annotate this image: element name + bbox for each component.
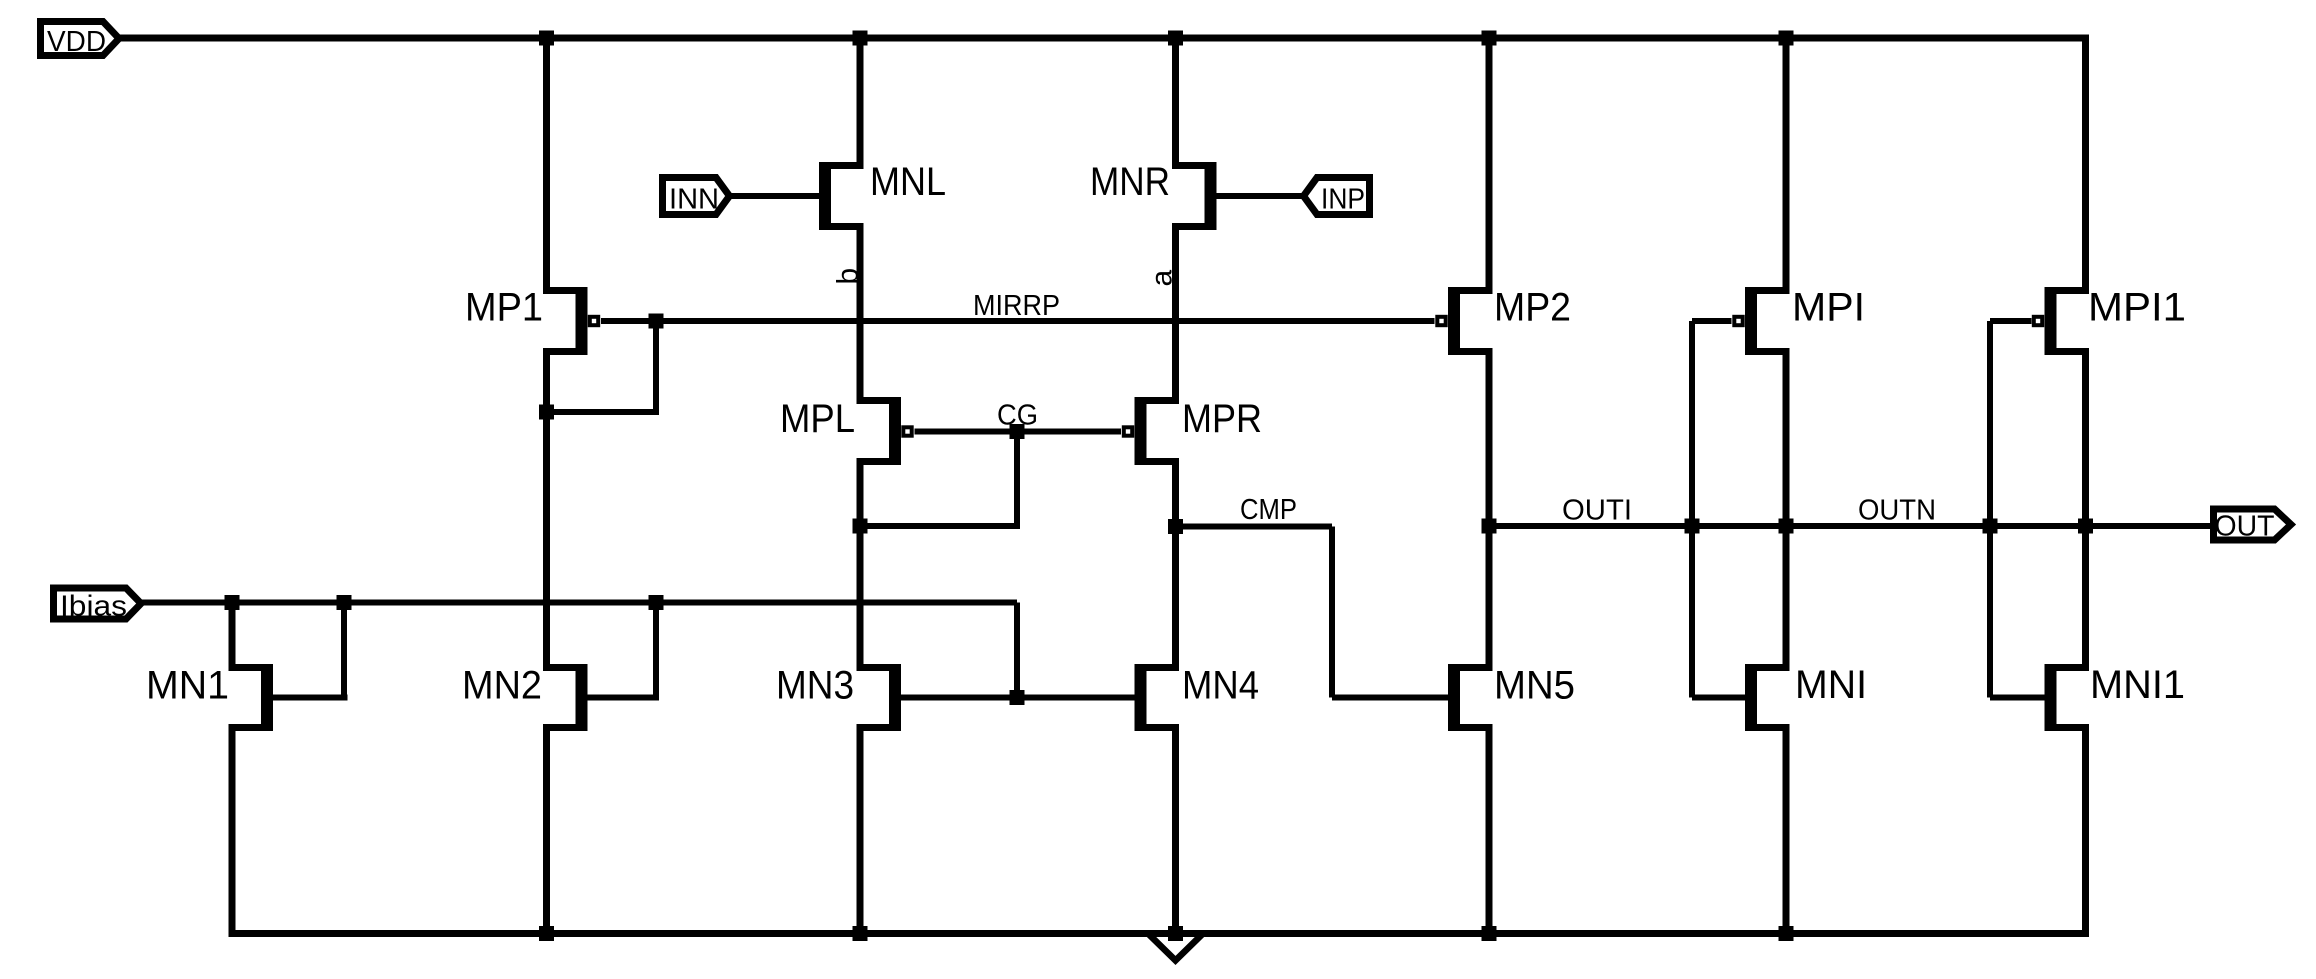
- svg-text:b: b: [832, 268, 865, 285]
- svg-text:OUTI: OUTI: [1562, 495, 1632, 527]
- transistor MP1 (PMOS): [543, 287, 598, 355]
- junction CG net: [1010, 424, 1025, 439]
- junction OUTN MPI1 MNI1 gate riser: [1983, 519, 1998, 534]
- junction Ibias MN1 drain: [225, 595, 240, 610]
- wire MN1 gate riser: [341, 603, 347, 698]
- wire MPI MNI gate riser: [1689, 321, 1695, 698]
- junction VDD rail x=546.5: [539, 31, 554, 46]
- junction VDD rail x=1175.5: [1168, 31, 1183, 46]
- wire MP1 gate-drain tie horizontal: [543, 409, 659, 415]
- wire MN1 gate lead: [273, 695, 348, 701]
- svg-text:MNR: MNR: [1090, 160, 1170, 204]
- junction ground rail x=546.5: [539, 926, 554, 941]
- wire INN lead to MNL gate: [729, 193, 819, 199]
- svg-text:MNI1: MNI1: [2090, 663, 2185, 707]
- wire VDD rail: [119, 35, 2089, 42]
- transistor MN3 (NMOS): [857, 664, 902, 731]
- wire MP1 drain to MN2 drain: [543, 352, 550, 668]
- wire CG net MPL gate to MPR gate: [915, 429, 1122, 435]
- junction ground rail x=1489: [1482, 926, 1497, 941]
- wire OUTI-OUTN-OUT row: [1489, 523, 2216, 529]
- wire VDD to MPI1 source: [2082, 35, 2089, 291]
- transistor MPI (PMOS): [1734, 287, 1789, 355]
- wire CMP net to MN5 gate: [1332, 695, 1448, 701]
- transistor MPI1 (PMOS): [2034, 287, 2089, 355]
- wire MN1 source to ground rail: [229, 728, 236, 938]
- svg-text:MPR: MPR: [1182, 397, 1262, 441]
- wire VDD to MNR drain: [1172, 35, 1179, 166]
- wire MPI drain to MNI drain: [1783, 352, 1790, 668]
- svg-text:MN3: MN3: [776, 664, 854, 708]
- wire MN2 gate riser: [653, 603, 659, 698]
- svg-text:OUT: OUT: [2215, 511, 2275, 543]
- transistor MPL (PMOS): [857, 397, 912, 465]
- junction Ibias MN1 gate: [337, 595, 352, 610]
- transistor MN2 (NMOS): [543, 664, 588, 731]
- svg-text:MP1: MP1: [465, 286, 543, 330]
- svg-text:MN1: MN1: [146, 664, 229, 708]
- svg-text:a: a: [1146, 270, 1179, 287]
- wire node a MNR source to MPR source: [1172, 227, 1179, 401]
- transistor MPR (PMOS): [1124, 397, 1179, 465]
- wire Ibias net: [141, 600, 1017, 606]
- wire node b MNL source to MPL source: [857, 227, 864, 401]
- port VDD: [41, 22, 120, 56]
- transistor MP2 (PMOS): [1437, 287, 1492, 355]
- wire VDD to MP2 source: [1486, 35, 1493, 291]
- wire MPI1 drain to MNI1 drain: [2082, 352, 2089, 668]
- junction CMP node MPR MN4 drains: [1168, 519, 1183, 534]
- wire MNI source to ground rail: [1783, 728, 1790, 938]
- wire VDD to MP1 source: [543, 35, 550, 291]
- wire MNI1 gate lead: [1990, 695, 2045, 701]
- wire MN2 source to ground rail: [543, 728, 550, 938]
- svg-text:MN5: MN5: [1494, 664, 1575, 708]
- wire Ibias net down to MN3 MN4 gates: [1014, 603, 1020, 698]
- wire MPI gate lead: [1692, 318, 1732, 324]
- junction OUT node MPI1 MNI1 drains: [2078, 519, 2093, 534]
- svg-text:INN: INN: [669, 184, 719, 216]
- wire MPI1 MNI1 gate riser: [1987, 321, 1993, 698]
- svg-text:VDD: VDD: [47, 26, 106, 58]
- junction ground rail x=1175.5: [1168, 926, 1183, 941]
- junction ground rail x=1786: [1779, 926, 1794, 941]
- wire CMP net vertical: [1329, 527, 1335, 698]
- port OUT: [2214, 509, 2292, 540]
- svg-text:MPI: MPI: [1792, 286, 1865, 330]
- wire Ibias to MN1 drain: [229, 600, 236, 668]
- wire CMP net horizontal from MN4 drain: [1176, 524, 1333, 530]
- wire MNI1 source to ground rail: [2082, 728, 2089, 938]
- junction MP1 drain tie: [539, 405, 554, 420]
- wire MP1 gate-drain tie vertical: [653, 321, 659, 412]
- wire MN3 source to ground rail: [857, 728, 864, 938]
- wire MNI gate lead: [1692, 695, 1745, 701]
- svg-text:OUTN: OUTN: [1858, 495, 1936, 527]
- junction VDD rail x=1489: [1482, 31, 1497, 46]
- svg-text:MIRRP: MIRRP: [973, 290, 1060, 322]
- svg-text:MN4: MN4: [1182, 664, 1259, 708]
- junction VDD rail x=1786: [1779, 31, 1794, 46]
- junction VDD rail x=860: [853, 31, 868, 46]
- ground: [1148, 934, 1203, 961]
- port Ibias: [54, 588, 142, 619]
- wire MPL drain to MN3 drain: [857, 462, 864, 668]
- wire ground rail: [229, 930, 2090, 937]
- junction ground rail x=860: [853, 926, 868, 941]
- junction Ibias MN2 gate: [649, 595, 664, 610]
- transistor MNR (NMOS): [1172, 162, 1217, 230]
- svg-text:MNL: MNL: [870, 160, 946, 204]
- wire MP2 drain to MN5 drain: [1486, 352, 1493, 668]
- wire MPR drain to MN4 drain: [1172, 462, 1179, 668]
- port INN: [663, 178, 730, 215]
- transistor MN1 (NMOS): [229, 664, 274, 731]
- svg-text:MNI: MNI: [1795, 663, 1867, 707]
- svg-text:MN2: MN2: [462, 664, 542, 708]
- wire CG junction down to MPL drain node: [1014, 432, 1020, 527]
- svg-text:MPL: MPL: [780, 397, 855, 441]
- svg-text:Ibias: Ibias: [60, 591, 127, 623]
- svg-text:MP2: MP2: [1494, 286, 1571, 330]
- junction OUTI node MP2 MN5 drains: [1482, 519, 1497, 534]
- svg-text:INP: INP: [1321, 184, 1365, 216]
- junction Ibias MN3 MN4 gates: [1010, 690, 1025, 705]
- wire MN5 source to ground rail: [1486, 728, 1493, 938]
- wire MPL drain node horizontal: [857, 523, 1021, 529]
- wire MN3 MN4 gate net: [901, 695, 1135, 701]
- wire MIRRP net MP1 gate to MP2 gate: [601, 318, 1435, 324]
- wire MN2 gate lead: [588, 695, 660, 701]
- svg-text:MPI1: MPI1: [2088, 286, 2186, 330]
- wire VDD to MPI source: [1783, 35, 1790, 291]
- junction MP1 gate tie: [649, 314, 664, 329]
- wire MPI1 gate lead: [1990, 318, 2032, 324]
- wire MN4 source to ground rail: [1172, 728, 1179, 938]
- wire VDD to MNL drain: [857, 35, 864, 166]
- junction MPL drain node: [853, 519, 868, 534]
- svg-text:CG: CG: [997, 400, 1038, 432]
- transistor MNI (NMOS): [1745, 664, 1790, 731]
- transistor MNL (NMOS): [819, 162, 864, 230]
- junction OUTI MPI MNI gate riser: [1685, 519, 1700, 534]
- port INP: [1304, 178, 1370, 215]
- svg-text:CMP: CMP: [1240, 494, 1297, 526]
- transistor MN4 (NMOS): [1135, 664, 1180, 731]
- junction OUTN node MPI MNI drains: [1779, 519, 1794, 534]
- transistor MNI1 (NMOS): [2045, 664, 2090, 731]
- transistor MN5 (NMOS): [1448, 664, 1493, 731]
- wire MNR gate to INP lead: [1217, 193, 1305, 199]
